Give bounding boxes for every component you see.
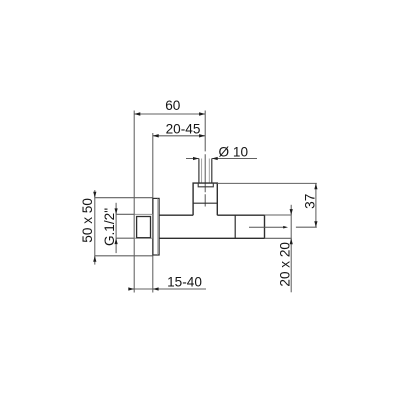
wire: center line right segment / 37 bottom extension [296,226,317,228]
valve body horizontal tube bottom edge [159,237,264,239]
wall flange highlight line [157,199,159,255]
svg-text:20-45: 20-45 [166,121,201,136]
wall flange plate [153,198,159,255]
wire: outlet center line with flow arrow [249,226,284,228]
wire: left extension line x=134.2 (60 / 15-40) [133,111,135,293]
wire: top extension line for 37 [217,182,316,184]
inlet thread outer crest outline [134,214,152,238]
wire: extension lines G.1/2 [116,214,134,238]
wire: dimension line G.1/2 [115,203,117,253]
pipe: riser tube inner lines [202,159,210,184]
svg-text:20 x 20: 20 x 20 [277,242,292,287]
svg-text:37: 37 [302,194,317,209]
wire: dimension line 15-40 [129,288,206,290]
pipe: riser tube Ø10 outer walls [199,159,212,184]
wire: dimension line 60 [134,113,205,115]
inlet thread root rectangle G.1/2 [137,217,151,238]
valve bonnet joint line [193,202,217,204]
wire: dimension line 37 [315,183,317,227]
svg-text:G.1/2": G.1/2" [102,208,117,246]
wire: flange-left extension line x=152.6 (20-45 / 15-40) [152,133,154,293]
svg-text:Ø 10: Ø 10 [219,145,249,160]
svg-text:60: 60 [165,98,181,113]
svg-text:15-40: 15-40 [167,274,202,289]
outlet joint line [234,215,236,238]
wire: dimension leader lines Ø10 [186,158,257,160]
wire: dimension line 50x50 [94,190,96,265]
wire: extension lines 20x20 [265,215,292,238]
svg-text:50 x 50: 50 x 50 [80,198,95,243]
valve bonnet block [193,183,217,215]
pipe socket recess [198,183,213,187]
wire: dimension line 20-45 [153,135,206,137]
wire: dimension line 20x20 [290,205,292,292]
valve body horizontal tube top edge [159,214,264,216]
node: vertical center line of riser pipe (dash-dot) [204,111,206,207]
outlet right end cap [264,215,266,238]
wire: extension lines 50x50 [95,198,153,256]
